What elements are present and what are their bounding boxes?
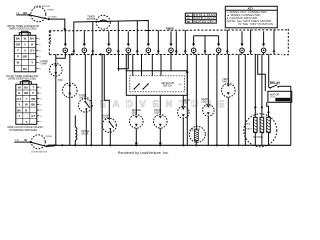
timer motor hump bbox=[98, 20, 108, 22]
svg-text:OTHERWISE SPECIFIED: OTHERWISE SPECIFIED bbox=[9, 129, 37, 132]
motor windings to bus bbox=[254, 132, 256, 145]
svg-text:P: P bbox=[32, 91, 34, 95]
svg-text:(WIRE INSERTION SIDE): (WIRE INSERTION SIDE) bbox=[8, 78, 36, 81]
wire DS2 to bottom bus bbox=[47, 145, 56, 148]
junction dots on dashed B bbox=[71, 53, 73, 55]
wires into selector bbox=[132, 54, 134, 76]
hi-limit thermostat bbox=[101, 54, 116, 145]
wire T feed bbox=[194, 35, 219, 37]
svg-text:P: P bbox=[17, 55, 19, 59]
svg-text:MAIN: MAIN bbox=[245, 122, 251, 125]
wire return i bbox=[226, 30, 229, 55]
svg-text:OR: OR bbox=[16, 43, 20, 47]
svg-text:T: T bbox=[25, 120, 27, 124]
svg-text:V: V bbox=[24, 49, 26, 53]
svg-text:T: T bbox=[17, 49, 19, 53]
svg-text:BR: BR bbox=[24, 91, 28, 95]
white connector pin numbers bbox=[39, 38, 41, 70]
junction dots on bottom bus bbox=[90, 144, 92, 146]
wire return d bbox=[136, 21, 139, 54]
junction cross bus to dashed bbox=[146, 30, 151, 32]
detergent dispenser bbox=[130, 95, 144, 145]
svg-text:IN THE "OFF" POSITION: IN THE "OFF" POSITION bbox=[238, 22, 273, 26]
svg-text:T: T bbox=[32, 86, 34, 90]
svg-text:OPEN: OPEN bbox=[47, 9, 54, 11]
wire DS1 to bus bbox=[49, 19, 65, 31]
junction right of selector bbox=[186, 54, 188, 145]
svg-text:L2: L2 bbox=[15, 138, 19, 142]
black connector pin numbers bbox=[40, 87, 42, 123]
wire top bus L1 bbox=[74, 21, 149, 44]
wire run m4 bbox=[125, 54, 127, 71]
contact S2 bbox=[82, 31, 87, 54]
door switch DS2 circle bbox=[31, 135, 45, 149]
contact S10 bbox=[261, 31, 266, 54]
svg-text:GY: GY bbox=[17, 97, 21, 101]
black connector pin stubs bbox=[37, 87, 40, 121]
white connector pin stubs bbox=[36, 38, 39, 68]
wire run m2 bbox=[101, 54, 103, 145]
svg-text:SWITCH: SWITCH bbox=[163, 85, 173, 88]
svg-text:V: V bbox=[18, 103, 20, 107]
white timer connector body bbox=[14, 31, 36, 72]
svg-text:OPEN: OPEN bbox=[45, 136, 52, 138]
white connector pin labels bbox=[16, 37, 35, 71]
black timer connector body bbox=[16, 81, 37, 125]
svg-text:BU: BU bbox=[24, 86, 28, 90]
svg-text:R: R bbox=[25, 108, 27, 112]
svg-text:OR: OR bbox=[31, 97, 35, 101]
svg-text:BK: BK bbox=[31, 103, 35, 107]
svg-text:MOTOR: MOTOR bbox=[87, 18, 96, 21]
svg-text:HD: HD bbox=[187, 21, 191, 23]
wire return f bbox=[175, 31, 178, 54]
svg-text:W: W bbox=[24, 37, 27, 41]
svg-text:R: R bbox=[18, 91, 20, 95]
svg-text:GY: GY bbox=[30, 49, 34, 53]
door switch DS2 arm bbox=[31, 142, 46, 146]
wire return e bbox=[157, 30, 160, 54]
wire return h bbox=[204, 36, 207, 55]
contact S3 bbox=[107, 31, 112, 54]
wire return b bbox=[91, 22, 94, 55]
key box bbox=[225, 6, 277, 28]
svg-text:TIMER: TIMER bbox=[166, 27, 174, 30]
svg-text:W: W bbox=[18, 86, 21, 90]
lamp circle bbox=[40, 54, 62, 145]
timer motor circle bbox=[96, 15, 110, 29]
contact S8 bbox=[216, 36, 221, 55]
junction DS1 bus bbox=[64, 28, 66, 30]
svg-text:W: W bbox=[25, 103, 28, 107]
white connector grid bbox=[14, 35, 36, 72]
svg-text:Y: Y bbox=[31, 61, 33, 65]
svg-text:BU: BU bbox=[17, 108, 21, 112]
black connector pin labels bbox=[17, 86, 35, 124]
timer dashed line top bbox=[49, 30, 288, 31]
wire return a bbox=[72, 31, 75, 55]
interlock device circle bbox=[58, 54, 77, 145]
svg-text:BK: BK bbox=[23, 11, 27, 15]
svg-text:CLOSED: CLOSED bbox=[48, 16, 57, 18]
motor winding 2 bbox=[260, 117, 264, 133]
timer dashed right edge bbox=[281, 29, 288, 55]
door switch DS2 throw bbox=[45, 145, 47, 147]
return wires with up triangles bbox=[72, 21, 275, 54]
svg-text:RELAY: RELAY bbox=[270, 81, 281, 85]
wire L1 in bbox=[16, 14, 28, 16]
wire return g bbox=[184, 30, 187, 54]
wire return j bbox=[249, 30, 252, 55]
svg-text:Rendered by LeadVenture, Inc.: Rendered by LeadVenture, Inc. bbox=[118, 151, 169, 155]
black connector grid bbox=[16, 84, 37, 124]
rinse aid dispenser bbox=[154, 95, 168, 145]
contact S6 bbox=[169, 31, 174, 71]
wash solenoid bbox=[201, 54, 214, 145]
wire S4 jog bbox=[119, 54, 129, 69]
door switch DS1 pole bbox=[28, 14, 30, 16]
contact S1 bbox=[63, 31, 68, 54]
svg-text:BK: BK bbox=[16, 37, 20, 41]
svg-text:Y: Y bbox=[18, 114, 20, 118]
door switch DS2 pole bbox=[29, 141, 31, 143]
svg-text:Y: Y bbox=[24, 43, 26, 47]
svg-text:W: W bbox=[17, 61, 20, 65]
door switch DS1 circle bbox=[31, 7, 46, 22]
svg-text:W: W bbox=[24, 138, 27, 142]
selector switch lever 2 bbox=[143, 88, 145, 90]
wire run m1 bbox=[90, 54, 92, 145]
wire run m3 bbox=[118, 54, 120, 71]
svg-text:MOTOR: MOTOR bbox=[270, 92, 280, 96]
motor relay bbox=[268, 81, 292, 102]
wire return k bbox=[273, 29, 276, 54]
water valve coil bbox=[75, 115, 89, 145]
selector switch lever 1 bbox=[134, 88, 136, 90]
wire run r2 bbox=[238, 54, 240, 145]
motor bbox=[244, 114, 277, 147]
vent fan bbox=[222, 54, 236, 145]
wire bottom bus L2 bbox=[47, 144, 290, 146]
timer dashed left edge bbox=[48, 31, 50, 55]
float switch bbox=[79, 54, 93, 145]
motor winding 1 bbox=[253, 117, 257, 133]
wire return c bbox=[117, 21, 120, 54]
svg-text:Y: Y bbox=[25, 97, 27, 101]
svg-text:VALVE: VALVE bbox=[81, 132, 89, 135]
motor winding 3 bbox=[267, 117, 271, 133]
wire run r3 bbox=[244, 54, 246, 145]
svg-text:L1: L1 bbox=[16, 11, 20, 15]
svg-text:(WIRE INSERTION SIDE): (WIRE INSERTION SIDE) bbox=[9, 28, 37, 31]
contact S7 bbox=[191, 36, 196, 55]
svg-text:GY: GY bbox=[31, 114, 35, 118]
svg-text:R: R bbox=[31, 43, 33, 47]
svg-text:SOL: SOL bbox=[183, 102, 188, 104]
contact S5 bbox=[146, 44, 151, 55]
contact S4 bbox=[126, 31, 131, 54]
wire run r1 bbox=[216, 54, 218, 145]
svg-text:BR: BR bbox=[23, 55, 27, 59]
svg-text:BU: BU bbox=[23, 67, 27, 71]
wire contact S1 to lamp bbox=[56, 54, 66, 58]
timer contacts row bbox=[63, 31, 266, 71]
svg-text:FAN: FAN bbox=[222, 81, 227, 84]
svg-text:START: START bbox=[245, 127, 252, 130]
dashed lead to connector bbox=[49, 31, 51, 44]
svg-text:BU: BU bbox=[30, 37, 34, 41]
heater bbox=[189, 54, 205, 145]
svg-text:COIL: COIL bbox=[270, 97, 276, 99]
selector switch box bbox=[126, 71, 187, 96]
svg-text:SOL: SOL bbox=[201, 101, 206, 103]
contact S9 bbox=[240, 31, 245, 54]
svg-text:HEATED DRY: HEATED DRY bbox=[194, 20, 214, 24]
wire relay feed bbox=[269, 54, 271, 88]
selector mode box bbox=[185, 13, 216, 23]
timer dashed line bottom bbox=[49, 53, 281, 55]
svg-text:LAMP: LAMP bbox=[41, 62, 48, 65]
svg-text:DISP: DISP bbox=[154, 112, 160, 114]
svg-text:DOOR SWITCH: DOOR SWITCH bbox=[31, 152, 47, 154]
door switch DS1 throw bbox=[48, 18, 50, 20]
motor feed wires bbox=[254, 54, 256, 117]
door switch DS1 arm bbox=[29, 15, 47, 19]
wire L2 in bbox=[14, 141, 29, 143]
svg-text:LO: LO bbox=[187, 18, 190, 20]
wire right border bbox=[290, 86, 292, 145]
selector mode box divider bbox=[192, 13, 194, 23]
drain solenoid bbox=[178, 95, 191, 145]
